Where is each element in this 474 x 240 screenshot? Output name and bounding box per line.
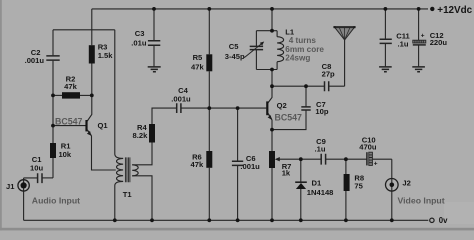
svg-text:.001u: .001u (25, 56, 45, 65)
capacitor C5 variable (250, 46, 263, 49)
transistor Q1 (85, 120, 91, 136)
svg-text:.001u: .001u (240, 162, 260, 171)
wire base branch (52, 126, 54, 143)
svg-text:4 turns: 4 turns (289, 36, 317, 45)
wire rail to C11 (384, 9, 386, 39)
wire output line (301, 158, 321, 160)
arrowhead C5 (260, 42, 264, 46)
wire C1 to J1 (24, 178, 38, 191)
wire J1 down (23, 191, 25, 220)
capacitor C4 (177, 103, 181, 113)
capacitor C3 (148, 41, 160, 46)
svg-text:D1: D1 (312, 178, 322, 187)
svg-text:BC547: BC547 (275, 113, 302, 123)
svg-text:27p: 27p (322, 70, 335, 79)
antenna (333, 26, 355, 40)
svg-text:.1u: .1u (315, 144, 326, 153)
wire node to R6 (208, 108, 210, 151)
wire C8 line (272, 85, 324, 87)
wire R2 left (53, 94, 62, 96)
wire C12 bottom (418, 45, 420, 66)
ground C3 (148, 67, 161, 72)
wire C4 right to node (181, 107, 209, 109)
resistor R3 (89, 45, 95, 63)
svg-text:J2: J2 (402, 179, 410, 188)
capacitor C8 (325, 81, 329, 91)
svg-text:R5: R5 (193, 53, 203, 62)
resistor R5 (206, 54, 212, 71)
wire R1 bottom (52, 158, 54, 178)
wire D1 top (300, 159, 302, 181)
wire C3 bottom (153, 46, 155, 67)
wire R7 bottom (271, 168, 273, 220)
svg-text:Q2: Q2 (277, 101, 287, 110)
svg-text:T1: T1 (123, 190, 133, 199)
transformer T1 secondary winding (132, 165, 138, 176)
resistor R8 (344, 174, 350, 191)
resistor R4 (149, 124, 155, 143)
connector J1 (18, 180, 29, 191)
wire rail to R5 (208, 9, 210, 54)
wire top box (53, 29, 115, 31)
wire R7 wiper (276, 158, 301, 160)
wire base line to Q2 (209, 107, 266, 109)
resistor R2 (62, 92, 80, 98)
wire T1 secondary top to R4 (132, 143, 152, 165)
wire C7 bottom return (272, 110, 306, 129)
wire rail to R3/C3 branch (153, 9, 155, 41)
capacitor C7 (301, 107, 310, 110)
svg-text:+12Vdc: +12Vdc (437, 5, 472, 16)
capacitor C11 (380, 39, 392, 43)
wire tank left bottom (255, 50, 257, 70)
wire J2 down (391, 191, 393, 220)
svg-text:3-45p: 3-45p (225, 52, 245, 61)
wire R2 right (80, 94, 92, 96)
svg-text:47k: 47k (191, 62, 204, 71)
ground C12 (412, 67, 425, 72)
wire tank top (256, 30, 277, 32)
svg-text:Q1: Q1 (98, 121, 109, 130)
wire C6 bottom (237, 166, 239, 221)
wire R4 top to C4 (152, 108, 177, 124)
svg-text:BC547: BC547 (55, 117, 82, 127)
svg-text:Audio Input: Audio Input (32, 195, 80, 205)
wire R5 bottom (208, 71, 210, 108)
wire R8 top (345, 159, 347, 174)
wire Q2 emitter down (271, 120, 273, 151)
capacitor C1 (38, 173, 42, 183)
svg-text:.01u: .01u (131, 38, 147, 47)
wire tank bottom (256, 69, 277, 71)
capacitor C12 hatched plate (413, 40, 426, 43)
wire D1 bottom (300, 189, 302, 220)
wire T1 secondary bottom (132, 176, 152, 221)
resistor R1 (50, 143, 56, 158)
wire box right drop to T1 primary (115, 30, 123, 159)
wire Q1 emitter to T1 tap (92, 136, 116, 170)
wire Q1 base (53, 125, 86, 127)
wire R6 bottom (208, 168, 210, 221)
wire left branch mid (52, 95, 54, 125)
svg-text:24swg: 24swg (285, 53, 310, 62)
svg-text:.1u: .1u (398, 39, 409, 48)
wire C1 right (42, 177, 53, 179)
svg-text:+: + (421, 33, 425, 40)
wire tank left top (255, 31, 257, 46)
capacitor C12 bottom plate (413, 44, 426, 46)
wire C9 to C10 (326, 158, 367, 160)
svg-text:220u: 220u (430, 38, 448, 47)
inductor L1 (276, 31, 278, 70)
wire left rail drop to R3 (91, 9, 93, 45)
svg-text:J1: J1 (6, 182, 15, 191)
svg-text:1.5k: 1.5k (98, 51, 114, 60)
capacitor C9 (321, 154, 325, 165)
svg-text:.001u: .001u (171, 95, 191, 104)
wire R3 to Q1 collector (87, 64, 92, 122)
svg-text:C3: C3 (135, 29, 145, 38)
svg-text:75: 75 (354, 181, 363, 190)
resistor R7 (269, 151, 275, 168)
arrow C5 (244, 43, 262, 58)
svg-text:470u: 470u (359, 143, 377, 152)
wire C6 top (237, 108, 239, 161)
wire C10 to J2 (373, 159, 392, 191)
capacitor C10 plate (366, 152, 368, 165)
wire C2 bottom (52, 61, 54, 96)
wire tank to Q2 collector (268, 70, 273, 104)
capacitor C10 hatched plate (369, 152, 373, 165)
capacitor C6 (232, 161, 243, 165)
wire T1 primary bottom (115, 181, 123, 220)
transformer T1 core (125, 157, 129, 182)
svg-text:8.2k: 8.2k (133, 131, 149, 140)
svg-text:10k: 10k (58, 150, 71, 159)
connector J2 (386, 179, 399, 192)
wire R8 bottom (345, 191, 347, 220)
svg-text:10p: 10p (315, 107, 328, 116)
wire C11 bottom (384, 44, 386, 67)
wire rail to tank (271, 9, 273, 31)
svg-text:1k: 1k (282, 169, 291, 178)
wire C7 top (305, 86, 307, 106)
svg-text:1N4148: 1N4148 (307, 188, 334, 197)
svg-text:+: + (374, 161, 378, 168)
wire C2 top (52, 30, 54, 56)
terminal 0v (430, 218, 434, 222)
wire rail to C12 (418, 9, 420, 40)
0V rail (24, 219, 429, 221)
svg-text:47k: 47k (64, 82, 77, 91)
diode D1 (295, 182, 307, 189)
arrowhead R7 wiper (275, 157, 280, 161)
capacitor C2 (46, 56, 59, 60)
transistor Q2 (266, 101, 272, 120)
svg-text:Video Input: Video Input (398, 195, 445, 205)
svg-text:0v: 0v (439, 216, 448, 225)
svg-text:C5: C5 (229, 42, 239, 51)
svg-text:10u: 10u (30, 163, 43, 172)
terminal +12Vdc (430, 7, 434, 11)
+12V rail (92, 8, 428, 10)
resistor R6 (206, 151, 212, 168)
transformer T1 primary winding (117, 158, 124, 181)
wire C8 right to antenna (329, 40, 345, 87)
ground C11 (379, 67, 392, 72)
svg-text:47k: 47k (191, 160, 204, 169)
